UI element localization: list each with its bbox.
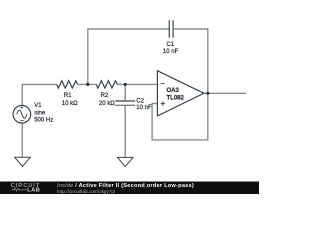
svg-text:http://circuitlab.com/ckpy7j3: http://circuitlab.com/ckpy7j3 [57,189,116,194]
svg-text:LAB: LAB [27,188,40,194]
resistor R2 zigzag [96,81,117,88]
V1 minus mark [20,120,23,122]
wire top horizontal to C1 left plate [88,28,170,30]
svg-text:10 nF: 10 nF [163,49,179,55]
wire feedback loop from op-amp + input around to output node [152,93,208,140]
wire R1 to R2 [78,83,97,85]
svg-text:20 kΩ: 20 kΩ [99,101,115,107]
resistor R1 zigzag [57,81,78,88]
svg-text:C2: C2 [136,98,144,104]
wire C1 right plate to right riser [173,28,208,30]
wire main horizontal V1 to R1 [22,83,57,85]
wire left riser from main wire to V1 top [21,84,23,105]
svg-text:TL082: TL082 [167,95,185,101]
output node junction dot [206,92,209,95]
svg-text:sine: sine [34,110,46,116]
wire node A riser up to top wire [87,28,89,84]
svg-text:C1: C1 [166,42,174,48]
op-amp minus input mark [161,83,165,85]
capacitor C2 top plate [115,100,135,102]
V1 plus mark [21,106,24,109]
capacitor C2 bottom plate [115,104,135,106]
capacitor C1 right plate [172,20,174,38]
ground 2 [117,157,133,166]
V1 sine glyph [17,110,27,118]
svg-text:R2: R2 [101,93,109,99]
node B junction dot [124,83,127,86]
capacitor C1 left plate [168,20,170,38]
bottom credit bar [0,182,259,195]
wire output stub to the right [208,92,246,94]
wire op-amp output to node [204,92,208,94]
ground 1 [15,157,31,166]
svg-text:10 nF: 10 nF [136,105,152,111]
svg-text:500 Hz: 500 Hz [34,118,53,124]
wire R2 to op-amp [117,83,157,85]
svg-text:OA3: OA3 [167,88,180,94]
node A junction dot [86,83,89,86]
op-amp plus input mark [161,101,165,105]
wire V1 bottom to ground [21,123,23,157]
voltage source V1 circle [13,105,31,123]
svg-text:10 kΩ: 10 kΩ [62,101,78,107]
svg-text:R1: R1 [64,93,72,99]
logo waveform glyph [12,188,27,191]
wire node B riser down to C2 top plate [124,84,126,101]
svg-text:V1: V1 [34,103,42,109]
wire right riser from top wire down to output node [207,28,209,93]
wire C2 bottom plate down to ground 2 [124,105,126,157]
op-amp OA3 triangle [157,71,204,116]
